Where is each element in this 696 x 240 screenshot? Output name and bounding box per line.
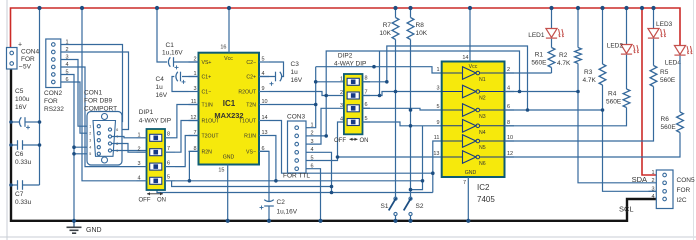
IC1 right pin stubs — [259, 61, 269, 63]
svg-text:+: + — [18, 42, 22, 49]
inverter gate N4 — [442, 125, 463, 127]
svg-text:R6: R6 — [661, 116, 670, 123]
svg-text:R5: R5 — [660, 69, 669, 76]
svg-text:4: 4 — [507, 86, 510, 92]
inverter gate N2 — [442, 91, 463, 93]
wire: CON2 pin3 to DB9 pin1 — [61, 60, 97, 127]
svg-text:3: 3 — [340, 103, 343, 109]
svg-text:0.33u: 0.33u — [15, 159, 32, 166]
svg-text:ON: ON — [157, 198, 166, 204]
svg-text:C4: C4 — [156, 76, 165, 83]
svg-text:CON5: CON5 — [677, 177, 695, 184]
wire: N6 output row to LED4/R6 — [505, 133, 681, 158]
svg-text:4.7K: 4.7K — [583, 77, 597, 84]
capacitor C2 (1u,16V) on IC1 pin6 VS- — [259, 151, 269, 201]
svg-text:5: 5 — [365, 116, 368, 122]
svg-text:560E: 560E — [661, 124, 677, 131]
capacitor C6 (0.33u) — [11, 144, 18, 146]
resistor R4 (560E) — [626, 55, 628, 89]
svg-text:N1: N1 — [479, 77, 486, 83]
svg-text:C2+: C2+ — [246, 75, 256, 81]
svg-text:1u,16V: 1u,16V — [277, 209, 298, 216]
capacitor C3 (1u,16V) between IC1 pins 4,5 — [259, 76, 276, 78]
LED LED4 — [674, 46, 685, 55]
svg-text:10K: 10K — [416, 30, 428, 37]
svg-text:16V: 16V — [291, 77, 303, 84]
+5V red bus wire (top) — [11, 8, 681, 48]
resistor R8 (10K) pull-up — [410, 8, 412, 18]
wire: DIP1 pin6 to IC1 T2OUT — [175, 136, 199, 167]
svg-text:R8: R8 — [416, 22, 425, 29]
wire: DB9 pin9 to bottom TTL row — [112, 151, 433, 193]
wire: CON2 pin4 to DIP1 pin3 — [61, 67, 137, 167]
svg-text:100u: 100u — [15, 96, 30, 103]
resistor R6 (560E) — [679, 56, 681, 112]
inverter gate N3 — [442, 109, 463, 111]
capacitor C7 (0.33u) — [11, 184, 18, 186]
wire: DB9 pin5 to ground rail — [74, 153, 97, 155]
svg-text:R7: R7 — [383, 22, 392, 29]
wire: IC1 pin9 R2OUT to DIP2 pin2 node — [269, 92, 326, 96]
svg-text:560E: 560E — [660, 77, 676, 84]
capacitor C5 (100u,16V) — [11, 121, 19, 123]
wire: DIP2 pin5 to IC2 pin9 — [363, 122, 442, 126]
ground symbol — [73, 221, 75, 227]
svg-text:R1IN: R1IN — [244, 134, 256, 140]
wire: CON3 pin3 riser to DIP2 pin3 — [310, 108, 344, 144]
IC1 left pin stubs — [189, 61, 199, 63]
svg-text:T2N: T2N — [246, 103, 256, 109]
wire: N5 output row to LED3/R5 — [505, 87, 654, 142]
ground / SCL bus wire (bottom, thick black) — [11, 69, 656, 221]
svg-text:1: 1 — [89, 125, 91, 129]
svg-text:R2: R2 — [559, 52, 568, 59]
svg-text:OFF: OFF — [139, 198, 151, 204]
svg-text:RS232: RS232 — [44, 106, 64, 113]
svg-text:Vcc: Vcc — [224, 56, 233, 62]
svg-text:FOR DB9: FOR DB9 — [84, 98, 113, 105]
wire: CON2 pin1 to DB9 shell — [61, 45, 123, 122]
svg-text:13: 13 — [433, 151, 439, 157]
svg-text:C1−: C1− — [202, 90, 212, 96]
svg-text:T1IN: T1IN — [202, 103, 213, 109]
inverter gate N6 — [442, 156, 463, 158]
svg-text:−: − — [19, 64, 23, 71]
svg-text:LED4: LED4 — [665, 60, 682, 67]
svg-text:FOR: FOR — [21, 56, 35, 63]
resistor R5 (560E) — [653, 39, 655, 66]
svg-text:I2C: I2C — [677, 197, 687, 204]
svg-text:2: 2 — [651, 178, 654, 184]
wire: IC1 pin13 R1IN down to row — [269, 136, 276, 181]
wire: CON2 pin2 to DB9 pin6 — [61, 52, 129, 130]
svg-text:LED3: LED3 — [656, 21, 673, 28]
svg-text:LED2: LED2 — [607, 43, 624, 50]
wire: DB9 pin7 to DIP1 pin1 — [112, 137, 137, 138]
svg-text:2: 2 — [137, 147, 140, 153]
wire: N3 output row to R3 pull-up — [505, 109, 603, 111]
svg-text:16V: 16V — [156, 92, 168, 99]
svg-text:4: 4 — [137, 175, 140, 181]
svg-text:N5: N5 — [479, 145, 486, 151]
svg-text:4-WAY DIP: 4-WAY DIP — [139, 118, 171, 125]
svg-text:R2OUT: R2OUT — [238, 90, 256, 96]
svg-text:S2: S2 — [416, 203, 424, 210]
wire: CON3 pin1 riser to DIP2 pin1 / IC1 T2N net — [310, 67, 316, 128]
svg-text:IC1: IC1 — [223, 99, 236, 108]
svg-text:14: 14 — [462, 55, 468, 61]
wire: DB9 pin8 to DIP1 pin2 — [112, 144, 137, 153]
svg-text:7: 7 — [365, 89, 368, 95]
svg-text:T1OUT: T1OUT — [239, 119, 257, 125]
svg-text:7: 7 — [463, 180, 466, 186]
svg-text:R2N: R2N — [202, 149, 213, 155]
svg-text:CON1: CON1 — [84, 90, 102, 97]
capacitor C4 (1u,16V) between IC1 pins 1,3 — [182, 76, 199, 78]
wire: DIP1 pin5 to IC1 R2IN and middle row — [175, 151, 199, 180]
svg-text:DIP1: DIP1 — [139, 109, 154, 116]
svg-text:2: 2 — [507, 67, 510, 73]
wire: DB9 pin4 to ground rail — [74, 146, 97, 148]
LED LED2 — [626, 8, 628, 44]
svg-text:C2: C2 — [277, 199, 286, 206]
wire: IC1 pin10 T2N to CON3 pin1 net — [269, 104, 316, 106]
DIP2 OFF/ON arrow — [350, 138, 358, 140]
connector CON3 (TTL) — [288, 121, 307, 173]
wire: IC1 pin14 T1OUT down to row — [269, 121, 433, 174]
resistor R7 (10K) pull-up — [395, 8, 397, 18]
svg-text:7405: 7405 — [477, 195, 495, 204]
svg-text:R3: R3 — [584, 69, 593, 76]
svg-text:6: 6 — [507, 104, 510, 110]
wire: DIP2 pin1 row — [316, 81, 344, 83]
inverter gate N5 — [442, 140, 463, 142]
IC1 pin16 Vcc wire from +5V bus — [228, 8, 230, 53]
svg-text:4-WAY DIP: 4-WAY DIP — [334, 61, 366, 68]
wire: DIP1 pin7 to IC1 R1OUT — [175, 121, 199, 153]
svg-text:N6: N6 — [479, 161, 486, 167]
wire: R8 to N3 input and S2 — [410, 40, 412, 197]
svg-text:11: 11 — [434, 135, 440, 141]
svg-text:4.7K: 4.7K — [557, 60, 571, 67]
svg-text:4: 4 — [340, 117, 343, 123]
wire: DIP2 pin2 row — [326, 95, 344, 97]
IC2 pin14 Vcc wire from +5V bus — [469, 8, 471, 62]
svg-text:5V: 5V — [23, 64, 32, 71]
svg-text:SCL: SCL — [619, 205, 634, 214]
resistor R2 (4.7K) SDA pull-up — [577, 8, 579, 48]
svg-text:0.33u: 0.33u — [15, 199, 32, 206]
wire: R7 to N2 input and S1 — [395, 40, 397, 197]
svg-text:2: 2 — [340, 90, 343, 96]
svg-text:ON: ON — [360, 138, 369, 144]
svg-text:GND: GND — [223, 155, 235, 161]
svg-text:6: 6 — [365, 102, 368, 108]
svg-text:R1: R1 — [535, 52, 544, 59]
wire: DIP2 pin7 to IC2 pin3 — [363, 92, 442, 96]
wire: R3 net down to CON5 pin3 — [603, 85, 657, 191]
wire: middle row from IC1 R2IN net — [189, 180, 422, 182]
svg-text:12: 12 — [507, 151, 513, 157]
wire: DIP1 pin5 branch down row — [172, 181, 332, 187]
svg-text:1u: 1u — [291, 69, 299, 76]
svg-text:R1OUT: R1OUT — [202, 119, 220, 125]
LED LED3 — [653, 8, 655, 28]
svg-text:1: 1 — [436, 67, 439, 73]
svg-text:9: 9 — [436, 120, 439, 126]
junction dots on +5V bus — [37, 6, 41, 10]
IC IC1 (MAX232) — [199, 53, 260, 165]
svg-text:SDA: SDA — [632, 175, 647, 184]
junction dots middle section — [314, 80, 318, 84]
wire: N4 output row to LED2/R4 — [505, 108, 627, 126]
wire: DIP2 pin8 stub to wire-A — [363, 81, 387, 83]
svg-text:C5: C5 — [15, 88, 24, 95]
svg-text:10: 10 — [507, 135, 513, 141]
page border frame — [6, 0, 8, 240]
svg-text:1u: 1u — [156, 84, 164, 91]
svg-text:LED1: LED1 — [528, 32, 545, 39]
svg-text:7: 7 — [167, 146, 170, 152]
wire: IC2 pin11 branch down to TTL row — [433, 141, 442, 193]
LED LED1 — [551, 8, 553, 28]
wire: +5V branch to DIP1 pin4 — [82, 8, 137, 181]
connector CON2 (RS232) — [46, 39, 61, 88]
svg-text:GND: GND — [465, 170, 477, 176]
svg-text:16: 16 — [220, 45, 226, 51]
wire: SDA net down to CON5 pin2 — [578, 64, 656, 183]
wire: CON2 pin6 to DB9 pin2 — [61, 82, 97, 133]
wire: CON3 pin5 riser to DIP2 pin4 / IC2 pin13 net — [310, 122, 344, 161]
resistor R1 (560E) — [551, 39, 553, 48]
wire: N1 output row to LED1/R1 — [505, 72, 552, 74]
svg-text:CON3: CON3 — [287, 114, 305, 121]
capacitor C1 (1u,16V) on IC1 pin2 — [157, 8, 167, 62]
wire: DIP1 pin8 to IC1 T1IN — [175, 105, 199, 138]
junction dots left section — [9, 120, 13, 124]
wire: node link to IC2 pin1 N1 input — [316, 67, 442, 73]
svg-text:C3: C3 — [291, 61, 300, 68]
svg-text:C2−: C2− — [246, 60, 256, 66]
svg-text:VS+: VS+ — [202, 60, 212, 66]
svg-text:N3: N3 — [479, 114, 486, 120]
svg-text:560E: 560E — [531, 60, 547, 67]
svg-text:3: 3 — [89, 139, 91, 143]
svg-text:C6: C6 — [15, 151, 24, 158]
wire: CON5 pin3 stub — [649, 190, 657, 192]
svg-text:N2: N2 — [479, 96, 486, 102]
wire: red +5V feed to CON5 pin1 — [642, 8, 656, 175]
svg-text:C1: C1 — [166, 42, 175, 49]
svg-text:1u,16V: 1u,16V — [162, 50, 183, 57]
wire: CON3 pin4 drop to TTL rows — [310, 152, 332, 192]
wire: wire-A over IC2 from DIP2 pin8 to N3 output — [387, 46, 528, 110]
svg-text:5: 5 — [89, 152, 91, 156]
svg-text:IC2: IC2 — [477, 183, 490, 192]
svg-text:FOR: FOR — [44, 98, 58, 105]
svg-text:560E: 560E — [606, 99, 622, 106]
svg-text:10K: 10K — [379, 30, 391, 37]
svg-text:6: 6 — [116, 128, 118, 132]
svg-text:FOR: FOR — [677, 187, 691, 194]
IC IC2 (7405 hex inverter) — [442, 62, 505, 178]
svg-text:2: 2 — [89, 132, 91, 136]
svg-text:T2OUT: T2OUT — [202, 134, 220, 140]
svg-text:16V: 16V — [15, 104, 27, 111]
svg-text:Vcc: Vcc — [469, 64, 478, 70]
svg-text:VS−: VS− — [246, 149, 256, 155]
wire: DIP2 pin6 to IC2 pin5 — [363, 108, 442, 110]
svg-text:CON4: CON4 — [21, 49, 39, 56]
junction dots on ground bus — [72, 219, 76, 223]
svg-text:N4: N4 — [479, 130, 486, 136]
svg-text:R4: R4 — [608, 91, 617, 98]
svg-text:5: 5 — [167, 175, 170, 181]
svg-text:8: 8 — [507, 120, 510, 126]
IC2 pin7 GND wire to ground bus — [467, 177, 469, 221]
resistor R3 (4.7K) pull-up — [602, 8, 604, 64]
wire: +5V rail to capacitors C5-C7 — [39, 8, 41, 185]
svg-text:15: 15 — [218, 168, 224, 174]
IC1 pin15 GND wire to ground bus — [227, 165, 229, 221]
svg-text:DIP2: DIP2 — [338, 53, 353, 60]
connector CON5 (I2C) — [656, 170, 673, 209]
svg-text:3: 3 — [137, 161, 140, 167]
svg-text:1: 1 — [340, 76, 343, 82]
wire: CON3 pin2 riser / wire-B to N2 output — [310, 51, 520, 136]
svg-text:1: 1 — [651, 170, 654, 176]
DIP1 OFF/ON arrow — [147, 193, 163, 195]
svg-text:C1+: C1+ — [202, 75, 212, 81]
svg-text:6: 6 — [167, 160, 170, 166]
connector CON4 (5V input) — [7, 48, 18, 70]
switch S2 — [409, 197, 412, 200]
wire: N2 output SDA row — [505, 91, 579, 93]
svg-text:4: 4 — [89, 146, 91, 150]
junction dots bottom rows — [188, 179, 192, 183]
switch S1 — [394, 197, 397, 200]
wire: IC2 pin13 row — [338, 156, 442, 158]
svg-text:3: 3 — [436, 86, 439, 92]
inverter gate N1 — [442, 72, 463, 74]
svg-text:GND: GND — [86, 227, 102, 234]
svg-text:OFF: OFF — [334, 138, 346, 144]
svg-text:4: 4 — [651, 194, 654, 200]
svg-text:FOR TTL: FOR TTL — [283, 173, 310, 180]
svg-text:8: 8 — [365, 76, 368, 82]
wire: CON3 pin6 to ground bus — [310, 169, 321, 221]
svg-text:5: 5 — [436, 104, 439, 110]
wire: N4 input branch down — [411, 126, 423, 190]
wire: CON2 pin5 to ground rail — [61, 75, 74, 221]
svg-text:C7: C7 — [15, 191, 24, 198]
svg-text:1: 1 — [137, 132, 140, 138]
IC2 right pin stubs — [505, 72, 515, 74]
wire: wire-B drop to DIP2 pin7 row — [379, 51, 381, 96]
svg-text:8: 8 — [167, 132, 170, 138]
svg-text:S1: S1 — [381, 203, 389, 210]
svg-text:CON2: CON2 — [44, 90, 62, 97]
